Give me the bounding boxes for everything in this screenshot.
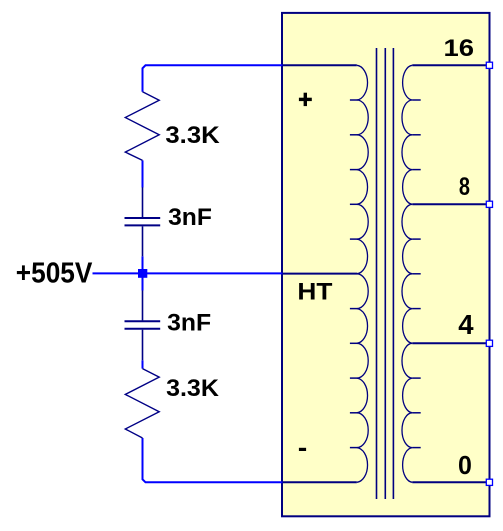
transformer T1 body (yellow box) <box>282 13 490 516</box>
transformer primary winding (left coil) <box>357 65 368 482</box>
pin 16 square <box>486 62 492 68</box>
svg-text:8: 8 <box>459 173 470 201</box>
wire R1 to C1 <box>142 160 144 187</box>
svg-text:3.3K: 3.3K <box>165 122 220 149</box>
label + (primary polarity) <box>299 93 312 106</box>
wire bottom rail <box>143 438 283 482</box>
pin 4 square <box>486 340 492 346</box>
wire C1 to node <box>142 256 144 269</box>
transformer core (3 vertical lines) <box>377 48 394 499</box>
wire secondary 16 tap <box>412 64 489 66</box>
svg-text:4: 4 <box>458 309 474 340</box>
wire secondary 8 tap <box>412 203 489 205</box>
wire primary top (+ lead) <box>282 64 357 66</box>
primary winding loop ticks <box>350 100 358 448</box>
wire top rail <box>143 65 283 91</box>
label - (primary polarity) <box>299 448 306 451</box>
capacitor C1 (3nF upper) <box>125 187 161 256</box>
svg-text:0: 0 <box>458 450 472 480</box>
wire C2 to R2 <box>142 360 144 368</box>
in-box connection wires (navy) <box>282 65 490 482</box>
svg-text:3nF: 3nF <box>168 204 212 231</box>
pin 0 square <box>486 479 492 485</box>
resistor R1 (3.3K upper) <box>125 92 159 161</box>
wire +505V label to node <box>93 272 139 274</box>
wire secondary 0 tap <box>412 481 489 483</box>
wire secondary 4 tap <box>412 342 489 344</box>
wire primary HT tap <box>282 273 358 275</box>
resistor R2 (3.3K lower) <box>125 369 159 438</box>
svg-text:16: 16 <box>444 35 475 62</box>
wire primary bottom (- lead) <box>282 481 357 483</box>
pin 8 square <box>486 201 492 207</box>
capacitor C2 (3nF lower) <box>125 291 161 361</box>
svg-text:+505V: +505V <box>16 257 93 289</box>
wire node to transformer HT <box>147 272 283 274</box>
svg-text:HT: HT <box>297 278 332 305</box>
external wires (bright blue) <box>93 65 283 482</box>
node junction square at +505V <box>138 269 147 278</box>
wire node to C2 <box>142 278 144 291</box>
svg-text:3.3K: 3.3K <box>166 375 219 402</box>
secondary winding loop ticks <box>412 100 421 448</box>
transformer secondary winding (right coil) <box>402 65 412 482</box>
svg-text:3nF: 3nF <box>167 310 211 337</box>
